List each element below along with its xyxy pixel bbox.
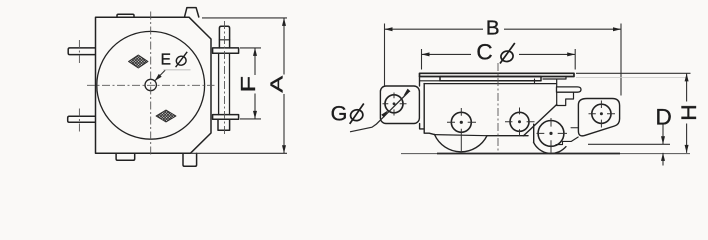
svg-text:B: B [486,17,500,40]
svg-text:D: D [655,105,671,130]
svg-text:A: A [266,75,287,92]
svg-text:G: G [331,101,348,125]
svg-text:E: E [161,51,171,68]
svg-text:H: H [677,104,701,121]
svg-text:F: F [237,76,260,92]
svg-text:C: C [476,39,492,64]
